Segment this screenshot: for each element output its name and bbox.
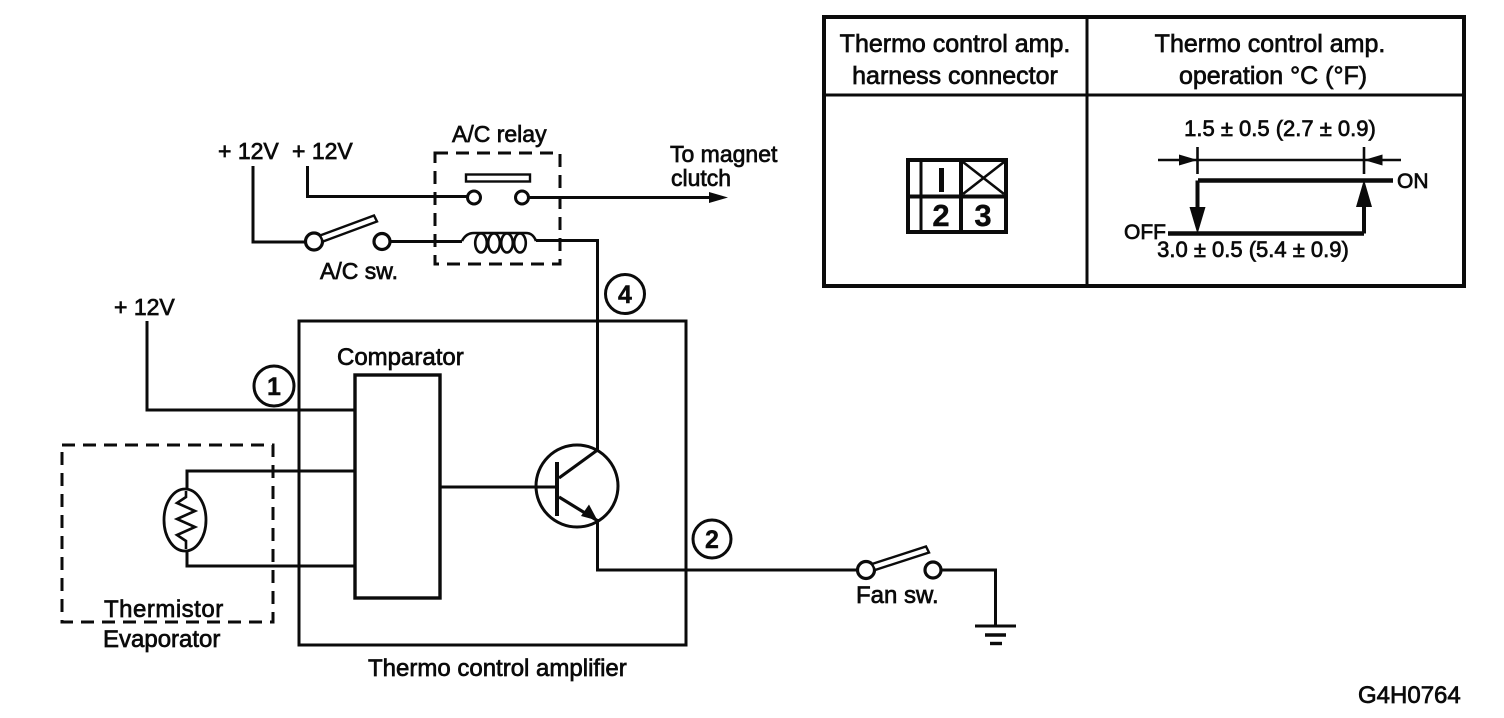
comparator U1 box xyxy=(355,375,440,598)
relay contact terminal right xyxy=(516,191,529,204)
connector left rib xyxy=(920,160,923,232)
svg-text:G4H0764: G4H0764 xyxy=(1358,682,1461,709)
switch A/C sw. S1 terminal right xyxy=(374,234,390,250)
wire thermistor bottom to comparator xyxy=(187,550,355,566)
thermo control amplifier box xyxy=(299,321,686,645)
table vertical divider xyxy=(1086,17,1089,286)
svg-text:Thermistor: Thermistor xyxy=(104,596,224,623)
hysteresis rising arrow shaft xyxy=(1362,207,1366,234)
transistor Q1 body circle xyxy=(536,445,618,527)
wire relay coil to transistor collector xyxy=(536,241,598,451)
node 1 circled xyxy=(254,366,294,406)
ground symbol line 2 xyxy=(985,633,1006,636)
transistor Q1 emitter arrowhead xyxy=(581,505,598,521)
hysteresis dimension tick right xyxy=(1363,147,1366,174)
svg-text:Comparator: Comparator xyxy=(337,344,464,371)
connector pin 1 bar xyxy=(939,168,944,192)
transistor Q1 base bar xyxy=(555,462,559,516)
thermistor RT1 zigzag xyxy=(177,491,195,549)
connector horizontal divider xyxy=(908,195,1006,199)
hysteresis falling arrow shaft xyxy=(1196,181,1200,211)
svg-text:+ 12V: + 12V xyxy=(292,138,353,164)
transistor Q1 emitter arm xyxy=(559,497,598,521)
svg-text:4: 4 xyxy=(618,281,632,309)
hysteresis dimension tick left xyxy=(1196,147,1199,174)
hysteresis dimension arrow left xyxy=(1179,155,1198,166)
table outer border xyxy=(824,17,1464,286)
wire +12V A to A/C switch xyxy=(253,166,306,242)
switch A/C sw. S1 terminal left xyxy=(306,233,323,250)
hysteresis dimension line xyxy=(1158,159,1401,162)
svg-text:ON: ON xyxy=(1397,170,1429,193)
svg-text:To magnet: To magnet xyxy=(670,141,778,167)
wire thermistor top to comparator xyxy=(187,471,355,490)
svg-text:Thermo control amplifier: Thermo control amplifier xyxy=(368,655,627,682)
relay coil L1 loop 3 xyxy=(501,234,513,253)
wire comparator output to transistor base xyxy=(440,486,557,489)
svg-text:operation °C (°F): operation °C (°F) xyxy=(1179,62,1367,90)
wire A/C switch to relay coil xyxy=(390,240,462,243)
switch Fan sw. S2 terminal left xyxy=(858,562,875,579)
wire to magnet clutch xyxy=(529,196,712,199)
relay coil L1 loop 4 xyxy=(514,234,526,253)
hysteresis ON line xyxy=(1198,178,1393,183)
relay coil L1 top contour xyxy=(462,233,536,241)
svg-text:3: 3 xyxy=(974,198,991,233)
connector vertical divider xyxy=(959,160,963,232)
svg-text:Evaporator: Evaporator xyxy=(103,626,220,653)
svg-text:+ 12V: + 12V xyxy=(218,138,279,164)
connector cell X cross xyxy=(963,162,1004,194)
wire transistor emitter to fan switch xyxy=(598,519,858,570)
relay coil L1 loop 1 xyxy=(475,234,487,253)
thermistor evaporator dashed enclosure xyxy=(62,445,273,622)
hysteresis OFF line xyxy=(1168,231,1364,236)
relay contact terminal left xyxy=(468,191,481,204)
svg-text:1: 1 xyxy=(267,373,281,401)
wire fan switch to ground xyxy=(941,570,996,626)
hysteresis rising arrowhead xyxy=(1356,180,1372,208)
svg-text:2: 2 xyxy=(705,526,719,554)
svg-text:Fan sw.: Fan sw. xyxy=(856,582,939,609)
svg-text:2: 2 xyxy=(932,198,949,233)
relay K1 dashed enclosure xyxy=(435,153,560,264)
ground symbol line 3 xyxy=(990,642,1002,645)
hysteresis falling arrowhead xyxy=(1190,207,1206,234)
relay contact bar xyxy=(466,175,530,182)
svg-text:1.5 ± 0.5 (2.7 ± 0.9): 1.5 ± 0.5 (2.7 ± 0.9) xyxy=(1184,116,1376,141)
svg-text:Thermo control amp.: Thermo control amp. xyxy=(1155,30,1386,58)
connector outer shell xyxy=(908,160,1006,232)
switch Fan sw. S2 lever xyxy=(872,547,929,571)
arrowhead to magnet clutch xyxy=(709,192,728,203)
switch A/C sw. S1 lever xyxy=(320,216,377,242)
node 2 circled xyxy=(693,520,731,558)
thermistor RT1 body xyxy=(164,489,206,551)
table horizontal divider xyxy=(824,94,1464,97)
wire +12V B to relay contact xyxy=(308,166,468,197)
svg-text:3.0 ± 0.5 (5.4 ± 0.9): 3.0 ± 0.5 (5.4 ± 0.9) xyxy=(1157,237,1349,262)
switch Fan sw. S2 terminal right xyxy=(925,562,941,578)
node 4 circled xyxy=(606,275,645,314)
ground symbol line 1 xyxy=(975,625,1016,628)
svg-text:clutch: clutch xyxy=(671,165,731,191)
svg-text:+ 12V: + 12V xyxy=(114,294,175,320)
hysteresis dimension arrow right xyxy=(1364,155,1383,166)
svg-text:Thermo control amp.: Thermo control amp. xyxy=(840,30,1071,58)
wire +12V C to comparator input xyxy=(147,321,355,410)
svg-text:harness connector: harness connector xyxy=(852,62,1058,90)
svg-text:A/C sw.: A/C sw. xyxy=(320,258,398,284)
svg-text:A/C relay: A/C relay xyxy=(452,121,547,147)
relay coil L1 loop 2 xyxy=(488,234,500,253)
transistor Q1 collector arm xyxy=(559,450,598,478)
